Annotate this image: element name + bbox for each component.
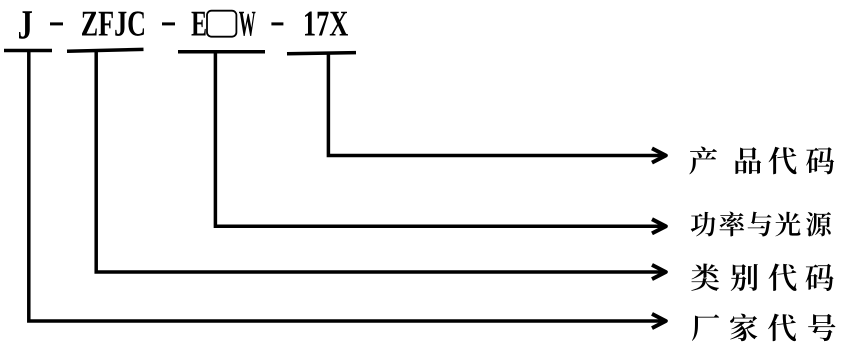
code E	[191, 12, 205, 36]
label 产品代码	[689, 147, 834, 175]
arrowhead row 2	[652, 219, 666, 233]
underline under EW	[178, 50, 265, 54]
dash 1	[50, 22, 63, 25]
underline under J	[4, 49, 52, 53]
connector line from ZFJC to row 3	[96, 51, 663, 272]
underline under 17X	[287, 53, 356, 54]
dash 3	[271, 22, 283, 25]
connector line from 17X to row 1	[328, 53, 663, 156]
connector line from EW to row 2	[215, 52, 663, 227]
code W	[239, 12, 256, 36]
code J	[19, 11, 32, 38]
code 17X	[305, 12, 348, 36]
underline under ZFJC	[67, 49, 144, 51]
arrowhead row 1	[652, 148, 666, 162]
label 厂家代号	[692, 314, 835, 341]
arrowhead row 3	[652, 265, 666, 279]
connector line from J to row 4	[29, 51, 663, 322]
label 功率与光源	[691, 211, 831, 236]
blank box in code	[207, 11, 236, 37]
dash 2	[162, 22, 175, 25]
code ZFJC	[82, 11, 144, 35]
arrowhead row 4	[652, 314, 666, 328]
label 类别代码	[691, 263, 833, 291]
